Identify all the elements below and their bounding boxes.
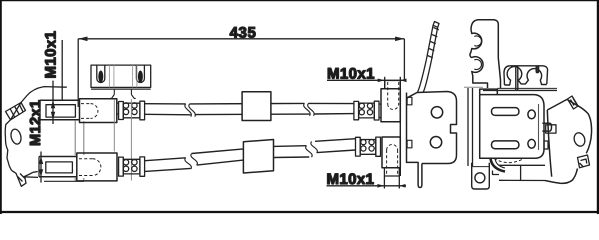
end view: clamp base plate edge-on <box>483 88 557 90</box>
M12x1 diameter dimension <box>39 152 43 183</box>
far right plate round hole <box>572 131 586 147</box>
fitting 2 body <box>77 153 117 181</box>
end view: bottom shelf <box>499 165 545 180</box>
fitting 2 crimp ferrule <box>119 157 145 176</box>
end view: bracket plate edge-on <box>464 87 483 166</box>
fitting 2 (bottom-left) threaded nipple M12 <box>39 157 77 177</box>
clip stem <box>110 89 136 98</box>
end view: wavy clamp with two seats <box>504 66 548 90</box>
end view: cylinder body <box>480 89 552 158</box>
hose 2 right section <box>315 139 356 153</box>
M10x1 left leader line <box>61 40 63 100</box>
left bracket right edge (double line) <box>75 121 84 182</box>
far right plate rectangular hole <box>546 125 556 133</box>
hose 1 mid section <box>190 103 310 114</box>
left bracket plate outline <box>5 87 67 171</box>
M10x1 left diameter dimension <box>51 81 55 124</box>
hose 1 break symbol 1 <box>185 104 196 117</box>
dimension 435 line <box>78 37 404 108</box>
left bracket bottom hook (hatched) <box>12 170 34 186</box>
fitting 4 crimp ferrule <box>356 137 381 156</box>
hose 2 break symbol 1 <box>185 154 198 170</box>
fitting 3 body (port up) <box>379 81 400 122</box>
hose 1 clamp block <box>242 92 271 121</box>
svg-text:435: 435 <box>230 25 257 42</box>
left bracket top tab (bent, hatched) <box>6 103 26 120</box>
end view: bottom boss arc <box>491 159 506 175</box>
M10x1 top dimension <box>327 66 407 89</box>
end view: far right plate (left bracket edge view) <box>545 99 592 183</box>
retaining clip (top hat, side view) <box>91 65 151 89</box>
fitting 4 (bottom-right) body (port down) <box>382 137 400 176</box>
end view: foot plate with hole <box>472 163 490 189</box>
left bracket hole (ellipse) <box>10 128 23 145</box>
right bracket plate (front view) <box>407 92 457 188</box>
hose 2 break symbol 2 <box>306 142 318 158</box>
far right plate bent tab (hatched) <box>568 96 579 109</box>
hose 2 mid section <box>192 146 310 165</box>
svg-text:M10x1: M10x1 <box>43 31 60 79</box>
hose 1 (top) left section <box>145 104 191 115</box>
fitting 1 body <box>80 99 117 123</box>
end view: hidden arcs under cylinder <box>494 159 523 163</box>
hose 2 (bottom) left section <box>145 158 191 172</box>
left bracket bottom edge <box>33 171 38 174</box>
svg-text:M12x1: M12x1 <box>28 100 44 146</box>
far right plate bottom hook (hatched) <box>578 155 590 168</box>
hose 2 clamp block <box>243 140 273 174</box>
fitting 3 (top-right) crimp ferrule <box>354 101 379 120</box>
right bracket slanted tab (hatched) <box>418 22 440 93</box>
hose 1 right section <box>309 103 354 114</box>
hose 1 break symbol 2 <box>304 103 315 115</box>
fitting 1 crimp ferrule <box>117 101 145 120</box>
clip strap lines (pass behind fittings) <box>114 99 131 180</box>
end view: double-slot bracket profile <box>470 20 501 88</box>
M10x1 bottom dimension <box>327 171 407 189</box>
right bracket flange edge <box>399 81 401 177</box>
fitting 1 (top-left) threaded nipple M10 <box>40 100 80 119</box>
